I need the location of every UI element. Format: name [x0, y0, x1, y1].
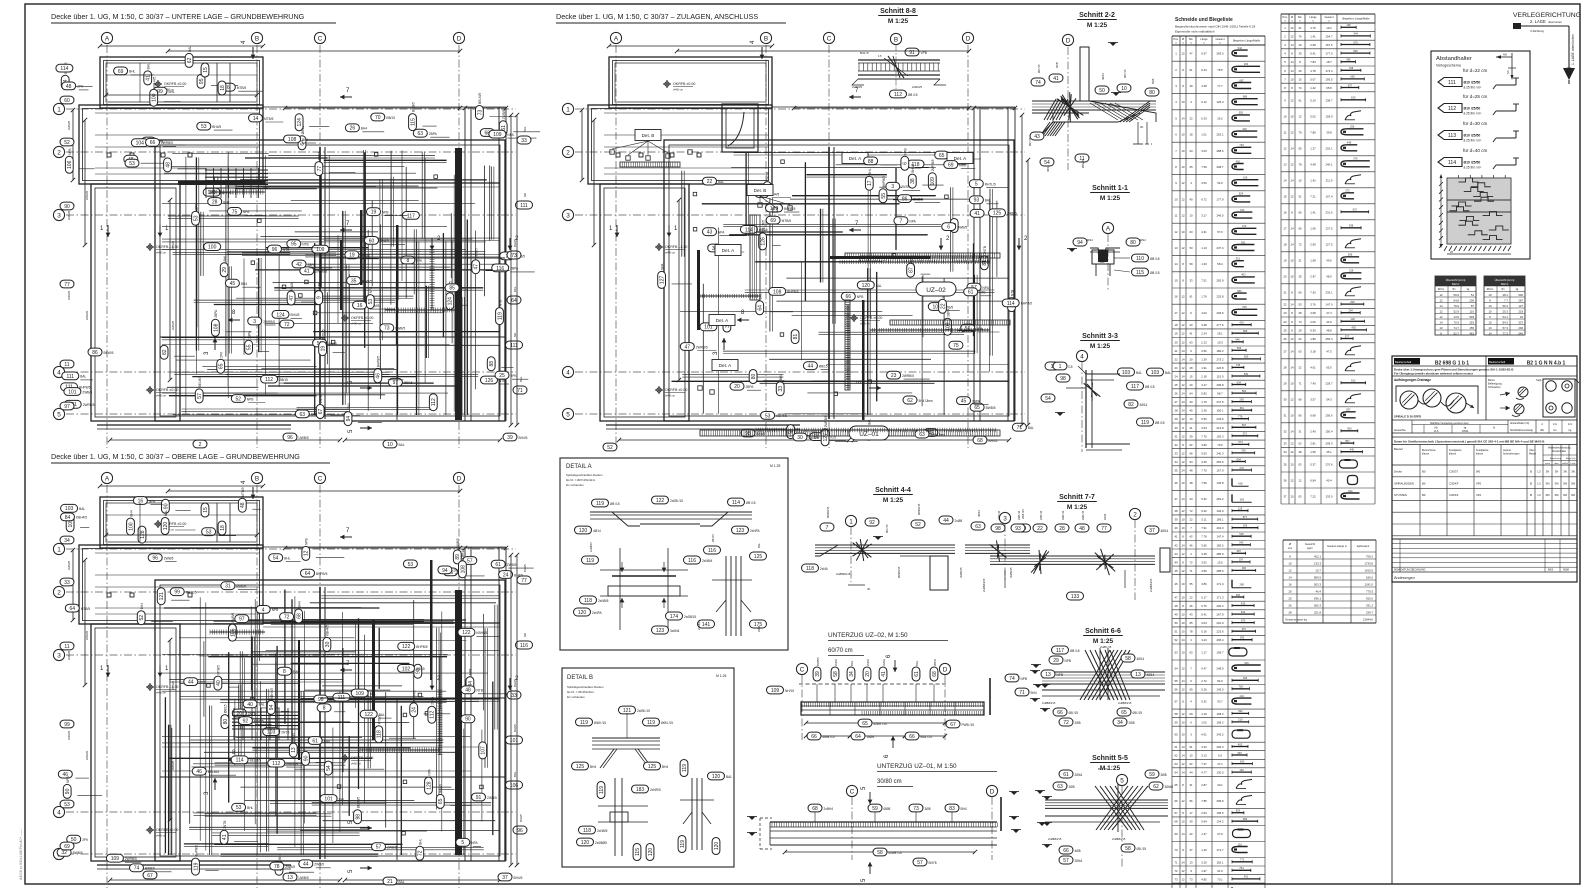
svg-text:Gesamtmasse kg: Gesamtmasse kg [1285, 618, 1307, 622]
svg-text:BH4: BH4 [590, 765, 596, 769]
svg-text:71: 71 [1019, 690, 1025, 696]
svg-text:2NTB: 2NTB [766, 172, 770, 180]
svg-text:12: 12 [1181, 877, 1185, 881]
svg-text:13544: 13544 [1462, 430, 1469, 433]
svg-text:d=60 cm: d=60 cm [665, 251, 675, 255]
svg-text:275.2: 275.2 [1217, 357, 1224, 361]
svg-text:2WRB/5: 2WRB/5 [696, 345, 708, 349]
svg-text:2.87: 2.87 [1201, 783, 1207, 787]
svg-text:Abstandhalter: Abstandhalter [1552, 450, 1566, 453]
svg-text:18.7: 18.7 [1326, 60, 1332, 64]
svg-text:Ø10 /25/50: Ø10 /25/50 [1464, 161, 1481, 165]
svg-text:C: C [318, 475, 323, 482]
svg-text:4.28: 4.28 [1201, 84, 1207, 88]
schnitt 2-2 extra hatch [1044, 99, 1056, 120]
svg-text:23: 23 [1189, 149, 1193, 153]
svg-text:57: 57 [376, 845, 382, 851]
svg-text:Bauherrschaft: Bauherrschaft [1395, 360, 1411, 364]
svg-text:62: 62 [187, 57, 193, 63]
svg-text:108: 108 [460, 565, 466, 574]
svg-text:3h: 3h [867, 587, 871, 591]
svg-text:Decke über 1. UG, M 1:50, C 30: Decke über 1. UG, M 1:50, C 30/37 – ZULA… [556, 12, 758, 21]
svg-text:59: 59 [872, 806, 878, 812]
svg-text:119: 119 [580, 720, 588, 726]
plan 3 hatched strips [845, 253, 1000, 258]
svg-text:79.0: 79.0 [1217, 443, 1223, 447]
svg-text:357: 357 [1242, 627, 1247, 631]
svg-text:Schnitt 6-6: Schnitt 6-6 [1085, 628, 1121, 635]
svg-text:975: 975 [1241, 618, 1246, 622]
svg-text:423: 423 [1240, 208, 1245, 212]
svg-text:46: 46 [1189, 604, 1193, 608]
svg-text:58: 58 [833, 671, 839, 677]
svg-text:NPA: NPA [149, 499, 156, 503]
svg-text:5H4 Üben: 5H4 Üben [919, 399, 934, 403]
svg-text:2xØ8Ø4/15: 2xØ8Ø4/15 [1149, 578, 1153, 592]
svg-text:33: 33 [1283, 442, 1287, 446]
svg-text:68: 68 [297, 613, 303, 619]
svg-text:13: 13 [1174, 246, 1178, 250]
svg-text:2.95: 2.95 [1310, 242, 1316, 246]
svg-text:109: 109 [771, 688, 780, 694]
svg-text:45: 45 [1174, 569, 1178, 573]
svg-text:75: 75 [232, 209, 238, 215]
svg-text:204: 204 [1348, 309, 1353, 313]
svg-text:260: 260 [1244, 62, 1249, 66]
svg-text:64: 64 [1174, 771, 1178, 775]
svg-text:38: 38 [1174, 509, 1178, 513]
svg-text:114: 114 [1007, 301, 1015, 307]
svg-text:22: 22 [707, 179, 713, 185]
svg-text:320: 320 [1242, 127, 1247, 131]
svg-text:108.2: 108.2 [1217, 712, 1224, 716]
svg-text:829: 829 [1236, 809, 1241, 813]
svg-text:3.20: 3.20 [1201, 860, 1207, 864]
svg-text:58: 58 [1125, 656, 1131, 662]
svg-text:119: 119 [193, 862, 199, 870]
svg-text:3M: 3M [1555, 481, 1560, 485]
svg-text:NTB: NTB [979, 291, 985, 295]
svg-text:25.3: 25.3 [1503, 310, 1509, 314]
svg-text:20: 20 [1174, 340, 1178, 344]
svg-text:39: 39 [507, 435, 513, 441]
svg-text:291.9: 291.9 [1217, 621, 1224, 625]
svg-text:lfm: lfm [1501, 288, 1504, 291]
svg-text:54: 54 [1045, 396, 1051, 402]
svg-text:94: 94 [1077, 240, 1083, 246]
svg-text:25: 25 [1283, 328, 1287, 332]
svg-text:61: 61 [1174, 745, 1178, 749]
svg-text:Aufhängungen Drainage: Aufhängungen Drainage [1394, 378, 1431, 382]
svg-text:909: 909 [1347, 427, 1352, 431]
svg-text:14: 14 [1174, 262, 1178, 266]
svg-text:BH4/5: BH4/5 [513, 724, 517, 732]
svg-text:12: 12 [1288, 569, 1292, 573]
svg-text:17: 17 [867, 180, 873, 186]
svg-text:5: 5 [566, 411, 570, 418]
svg-text:Verlegeschema: Verlegeschema [1436, 64, 1461, 68]
svg-text:m: m [1284, 21, 1286, 23]
svg-text:1m²: 1m² [1568, 423, 1572, 426]
svg-text:337: 337 [1518, 321, 1523, 325]
svg-text:14: 14 [1290, 429, 1294, 433]
svg-text:Ø8 /15: Ø8 /15 [1123, 69, 1127, 78]
svg-text:78: 78 [274, 864, 280, 870]
svg-text:39: 39 [1189, 820, 1193, 824]
svg-text:Schnitt 2-2: Schnitt 2-2 [1079, 12, 1115, 19]
svg-text:28: 28 [1174, 409, 1178, 413]
svg-text:282.9: 282.9 [1217, 278, 1224, 282]
svg-text:14: 14 [1290, 69, 1294, 73]
svg-text:125: 125 [576, 764, 585, 770]
svg-text:Ø8 /15: Ø8 /15 [1150, 257, 1160, 261]
grid axis circles 1-5 [562, 103, 573, 114]
stirrup tick rows plans [210, 191, 265, 193]
svg-text:12: 12 [1181, 509, 1185, 513]
svg-text:58.4: 58.4 [1217, 262, 1223, 266]
svg-text:26: 26 [1283, 337, 1287, 341]
svg-text:2PK: 2PK [199, 680, 206, 684]
svg-text:4.85: 4.85 [1201, 877, 1207, 881]
svg-text:3Ø8 /14: 3Ø8 /14 [1017, 510, 1021, 520]
svg-text:12: 12 [1181, 869, 1185, 873]
svg-text:10: 10 [387, 442, 393, 448]
svg-text:62: 62 [1298, 337, 1302, 341]
svg-text:56: 56 [1174, 687, 1178, 691]
svg-text:240.1: 240.1 [1326, 162, 1333, 166]
svg-text:2Ø8 /14: 2Ø8 /14 [1039, 510, 1043, 520]
plan edge dimension chains [609, 45, 772, 47]
svg-text:932: 932 [1238, 709, 1243, 713]
svg-text:m: m [1312, 21, 1314, 23]
svg-text:11: 11 [1175, 214, 1178, 218]
svg-text:NPB: NPB [66, 776, 70, 783]
svg-text:759: 759 [1241, 449, 1246, 453]
svg-text:248.9: 248.9 [1217, 667, 1224, 671]
svg-text:12: 12 [1181, 197, 1185, 201]
svg-text:MTB/5: MTB/5 [81, 607, 91, 611]
svg-text:Länge: Länge [1309, 15, 1317, 19]
svg-text:57: 57 [197, 393, 203, 399]
svg-text:341: 341 [1244, 875, 1249, 879]
svg-text:2.24: 2.24 [1201, 332, 1207, 336]
svg-text:79: 79 [1298, 130, 1302, 134]
svg-text:47: 47 [1189, 52, 1193, 56]
title block row1 project numbers [1392, 365, 1577, 367]
table gewicht summary [1283, 539, 1376, 541]
svg-text:12: 12 [1181, 295, 1185, 299]
svg-text:MTB/5: MTB/5 [782, 219, 792, 223]
svg-text:66: 66 [1063, 848, 1069, 854]
grid axis circles 1-5 [53, 543, 64, 554]
svg-text:661: 661 [1240, 406, 1245, 410]
gewicht strip [1392, 432, 1577, 434]
svg-text:12: 12 [1290, 162, 1294, 166]
svg-text:51: 51 [1298, 194, 1302, 198]
svg-text:938: 938 [1349, 224, 1354, 228]
svg-text:154.7: 154.7 [1326, 34, 1333, 38]
svg-text:117: 117 [407, 213, 415, 219]
top block partitions plans 1+2 [216, 63, 218, 102]
svg-text:BELM/5: BELM/5 [478, 92, 482, 104]
svg-text:2xØ8 /15: 2xØ8 /15 [670, 499, 683, 503]
svg-text:25: 25 [1189, 165, 1193, 169]
svg-text:Schnitt 4-4: Schnitt 4-4 [875, 487, 911, 494]
table stahlliste 2 [1280, 14, 1282, 23]
svg-text:58: 58 [789, 429, 795, 435]
svg-text:OKRFB ±0.00: OKRFB ±0.00 [860, 316, 882, 320]
svg-text:4Ø14: 4Ø14 [1137, 657, 1145, 661]
svg-text:128: 128 [140, 530, 146, 539]
svg-text:53: 53 [129, 161, 135, 167]
svg-text:10: 10 [1181, 582, 1185, 586]
annotation pills left margin [61, 62, 69, 89]
svg-text:Det. A: Det. A [849, 156, 862, 161]
svg-text:18: 18 [1174, 323, 1178, 327]
svg-text:9: 9 [317, 296, 323, 299]
svg-text:20: 20 [734, 384, 740, 390]
svg-text:17: 17 [1174, 311, 1178, 315]
svg-text:Det. A: Det. A [722, 248, 735, 253]
svg-text:126: 126 [1351, 317, 1356, 321]
svg-text:119: 119 [596, 501, 604, 507]
svg-text:119: 119 [682, 764, 688, 772]
svg-text:10: 10 [1181, 526, 1185, 530]
svg-text:d=60 cm: d=60 cm [156, 251, 166, 255]
svg-text:m: m [1328, 21, 1330, 23]
svg-text:Ø8/15: Ø8/15 [404, 381, 413, 385]
svg-text:193.5: 193.5 [1326, 77, 1333, 81]
svg-text:24: 24 [1174, 375, 1178, 379]
svg-text:699: 699 [1353, 49, 1358, 53]
svg-text:12: 12 [1298, 479, 1302, 483]
svg-text:107: 107 [481, 746, 487, 755]
svg-text:12: 12 [1181, 552, 1185, 556]
svg-text:63: 63 [1298, 495, 1302, 499]
svg-text:2WRB/5: 2WRB/5 [902, 374, 914, 378]
svg-text:455: 455 [1352, 326, 1357, 330]
grid axis circles A-D [101, 32, 112, 43]
svg-text:1.27: 1.27 [1310, 146, 1316, 150]
svg-text:NPB: NPB [1057, 673, 1064, 677]
svg-text:19: 19 [1174, 332, 1178, 336]
svg-text:277.6: 277.6 [1217, 323, 1224, 327]
detail B box [562, 668, 734, 867]
svg-text:Stk.: Stk. [1189, 37, 1194, 41]
verlegeschema mesh grid [1446, 178, 1448, 244]
svg-text:98: 98 [1060, 376, 1066, 382]
building outline walls [100, 57, 263, 108]
svg-text:76: 76 [1298, 34, 1302, 38]
svg-text:M 1:25: M 1:25 [1100, 195, 1121, 202]
svg-text:7.70: 7.70 [1201, 434, 1207, 438]
svg-text:Gewicht: Gewicht [1305, 542, 1315, 546]
svg-text:BAL: BAL [259, 703, 265, 707]
svg-text:14: 14 [1290, 303, 1294, 307]
svg-text:OKRFB –1.30: OKRFB –1.30 [156, 685, 178, 689]
svg-text:NR: NR [513, 333, 517, 337]
svg-text:48: 48 [1189, 481, 1193, 485]
svg-text:62: 62 [1189, 443, 1193, 447]
svg-text:33: 33 [778, 386, 784, 392]
svg-text:68: 68 [1298, 397, 1302, 401]
svg-text:98.7: 98.7 [1217, 392, 1223, 396]
svg-text:6: 6 [227, 85, 230, 91]
svg-text:35.1: 35.1 [1326, 450, 1332, 454]
svg-text:12: 12 [1181, 181, 1185, 185]
svg-text:10: 10 [1488, 310, 1492, 314]
svg-text:klasse: klasse [1449, 453, 1457, 456]
svg-text:BH4/5: BH4/5 [439, 784, 443, 793]
svg-text:96: 96 [517, 828, 523, 834]
svg-text:B: B [1530, 493, 1532, 497]
svg-text:99: 99 [174, 590, 180, 596]
svg-text:86: 86 [92, 350, 98, 356]
svg-text:393: 393 [1240, 636, 1245, 640]
svg-text:7.78: 7.78 [1201, 535, 1207, 539]
svg-text:59: 59 [1189, 262, 1193, 266]
svg-text:110: 110 [1136, 256, 1144, 262]
svg-text:14: 14 [1181, 745, 1185, 749]
svg-text:12: 12 [1283, 146, 1287, 150]
svg-text:5.30: 5.30 [1310, 328, 1316, 332]
svg-text:61: 61 [914, 671, 920, 677]
svg-text:12: 12 [1439, 293, 1443, 297]
svg-text:BAL: BAL [718, 180, 724, 184]
svg-text:Schnitt 1-1: Schnitt 1-1 [1092, 185, 1128, 192]
svg-text:125: 125 [754, 554, 763, 560]
svg-text:MTB/5: MTB/5 [264, 117, 274, 121]
svg-text:28: 28 [1189, 366, 1193, 370]
svg-text:BHPB/5: BHPB/5 [787, 290, 799, 294]
svg-text:3.62: 3.62 [1201, 560, 1207, 564]
svg-text:45: 45 [230, 281, 236, 287]
svg-text:72: 72 [1174, 869, 1178, 873]
svg-text:83: 83 [949, 806, 955, 812]
svg-text:1735.8: 1735.8 [1364, 562, 1373, 566]
svg-text:133.0: 133.0 [1326, 495, 1333, 499]
svg-text:555: 555 [1239, 111, 1244, 115]
svg-text:48: 48 [66, 84, 72, 90]
svg-text:C: C [800, 666, 805, 673]
svg-text:14: 14 [1290, 43, 1294, 47]
svg-text:2xBH: 2xBH [834, 659, 838, 666]
svg-text:150.4: 150.4 [1326, 429, 1333, 433]
svg-text:3.86: 3.86 [1201, 582, 1207, 586]
svg-text:195.5: 195.5 [1217, 811, 1224, 815]
svg-text:2.13: 2.13 [1201, 340, 1207, 344]
svg-text:10: 10 [1181, 720, 1185, 724]
svg-text:228.7: 228.7 [1326, 381, 1333, 385]
svg-text:53: 53 [765, 413, 771, 419]
svg-text:VERLEGERICHTUNG: VERLEGERICHTUNG [1513, 12, 1581, 19]
svg-text:10: 10 [1181, 733, 1185, 737]
svg-text:19: 19 [1283, 258, 1287, 262]
svg-text:235.1: 235.1 [1326, 290, 1333, 294]
svg-text:Schnitt 5-5: Schnitt 5-5 [1092, 755, 1128, 762]
svg-text:46.4: 46.4 [1316, 590, 1322, 594]
svg-text:58: 58 [1174, 712, 1178, 716]
svg-text:81: 81 [793, 334, 799, 340]
svg-text:BAL: BAL [399, 443, 405, 447]
svg-text:16: 16 [138, 498, 144, 504]
svg-text:20: 20 [1189, 400, 1193, 404]
svg-text:42: 42 [1189, 535, 1193, 539]
svg-text:à 25 lfm / m²: à 25 lfm / m² [1464, 166, 1482, 170]
svg-text:109: 109 [111, 856, 120, 862]
svg-text:65: 65 [1189, 687, 1193, 691]
svg-text:28: 28 [1298, 311, 1302, 315]
svg-text:167.6: 167.6 [1326, 43, 1333, 47]
svg-text:Decke über 1. UG, M 1:50, C 30: Decke über 1. UG, M 1:50, C 30/37 – UNTE… [51, 12, 305, 21]
svg-text:2PK: 2PK [77, 85, 84, 89]
svg-text:33: 33 [521, 138, 527, 144]
svg-text:5PB Üben: 5PB Üben [931, 433, 946, 437]
svg-text:74: 74 [1035, 80, 1041, 86]
svg-text:73: 73 [511, 253, 517, 259]
svg-text:12: 12 [1181, 667, 1185, 671]
svg-text:28: 28 [212, 199, 218, 205]
svg-text:331.2: 331.2 [1366, 604, 1373, 608]
svg-text:Mindestbetondeckung: Mindestbetondeckung [1548, 447, 1571, 450]
svg-text:93: 93 [1015, 526, 1021, 532]
svg-text:208.7: 208.7 [1217, 165, 1224, 169]
verlegerichtung arrow 2.lage [1515, 25, 1569, 27]
svg-text:3.76: 3.76 [1310, 303, 1316, 307]
svg-text:1.56: 1.56 [1310, 226, 1316, 230]
svg-text:2PK: 2PK [194, 203, 198, 210]
svg-text:für d=25 cm: für d=25 cm [1463, 94, 1488, 99]
svg-text:25: 25 [1174, 383, 1178, 387]
svg-text:183: 183 [636, 787, 645, 793]
svg-text:34: 34 [1117, 720, 1123, 726]
svg-text:Ø8/15: Ø8/15 [386, 116, 395, 120]
svg-text:74: 74 [1298, 320, 1302, 324]
svg-text:41: 41 [1189, 332, 1193, 336]
svg-text:294.0: 294.0 [1217, 526, 1224, 530]
svg-text:625: 625 [1242, 305, 1247, 309]
svg-text:236: 236 [1236, 593, 1241, 597]
svg-text:BWB/5: BWB/5 [362, 279, 372, 283]
svg-text:119: 119 [599, 786, 605, 794]
svg-text:4: 4 [57, 809, 61, 816]
svg-text:Ø8 /15: Ø8 /15 [1069, 711, 1079, 715]
svg-text:B: B [1530, 481, 1532, 485]
dark junction cluster plan1 [205, 169, 268, 171]
svg-text:DETAIL B: DETAIL B [567, 675, 593, 681]
extra pills plan1 center [353, 301, 367, 309]
svg-text:10: 10 [1189, 214, 1193, 218]
svg-text:53: 53 [408, 562, 414, 568]
svg-text:für d=40 cm: für d=40 cm [1463, 148, 1488, 153]
detail B lower-right cluster [691, 778, 693, 850]
svg-text:64: 64 [70, 606, 76, 612]
svg-text:481: 481 [1469, 332, 1474, 336]
svg-text:12: 12 [1181, 569, 1185, 573]
svg-text:15: 15 [1174, 278, 1178, 282]
svg-text:B42 /5: B42 /5 [860, 51, 869, 55]
svg-text:84.3: 84.3 [1503, 321, 1509, 325]
svg-text:173.4: 173.4 [1326, 69, 1333, 73]
svg-text:12: 12 [1181, 383, 1185, 387]
svg-text:77: 77 [1101, 526, 1107, 532]
svg-text:211.9: 211.9 [1326, 178, 1333, 182]
svg-text:2WRB/5: 2WRB/5 [824, 415, 828, 427]
svg-text:M 1:25: M 1:25 [770, 464, 780, 468]
svg-text:13: 13 [1045, 672, 1051, 678]
svg-text:BHL: BHL [169, 90, 175, 94]
svg-text:Gewichte: Gewichte [1394, 428, 1406, 432]
